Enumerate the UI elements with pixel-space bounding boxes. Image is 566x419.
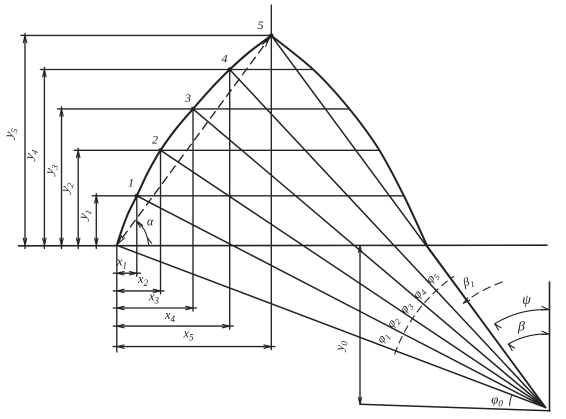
- svg-text:4: 4: [222, 52, 228, 66]
- svg-text:3: 3: [184, 91, 191, 105]
- svg-text:y2: y2: [56, 179, 76, 196]
- svg-text:2: 2: [152, 133, 158, 147]
- svg-text:φ0: φ0: [491, 392, 503, 409]
- svg-text:y5: y5: [0, 125, 20, 142]
- svg-text:α: α: [147, 215, 154, 229]
- svg-text:y3: y3: [41, 161, 61, 178]
- svg-text:ψ: ψ: [522, 293, 531, 308]
- svg-text:β: β: [517, 320, 525, 335]
- svg-text:1: 1: [128, 176, 134, 190]
- svg-text:x1: x1: [116, 255, 127, 271]
- svg-text:φ3: φ3: [396, 298, 415, 316]
- svg-text:y4: y4: [20, 146, 40, 163]
- svg-text:5: 5: [258, 18, 264, 32]
- svg-text:φ5: φ5: [422, 268, 441, 286]
- svg-text:φ4: φ4: [409, 283, 429, 302]
- svg-text:φ2: φ2: [383, 312, 403, 331]
- svg-text:y0: y0: [332, 339, 349, 353]
- svg-text:x5: x5: [182, 327, 194, 343]
- svg-text:x2: x2: [137, 272, 149, 288]
- svg-text:x4: x4: [164, 308, 176, 324]
- svg-text:y1: y1: [74, 207, 94, 223]
- svg-text:β1: β1: [460, 273, 476, 292]
